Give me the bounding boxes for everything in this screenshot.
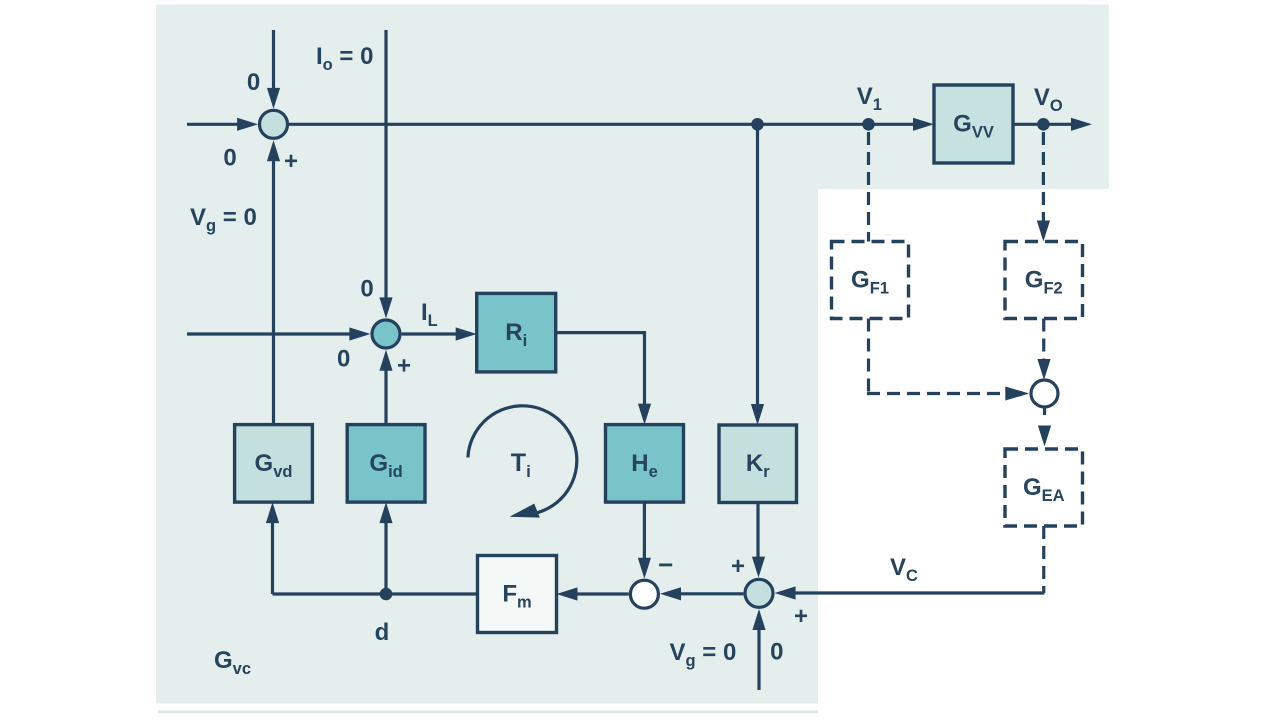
wire: S3 output arrow into Fm — [557, 587, 629, 600]
difference node S3 — [630, 580, 658, 608]
block GF1 dashed — [832, 242, 909, 319]
wire: left input arrow into summing node S1 — [187, 118, 258, 131]
wire: arrowhead into Gvv — [913, 118, 934, 131]
wire: d line up into Gvd — [266, 502, 279, 594]
svg-text:0: 0 — [770, 639, 783, 666]
node d junction — [380, 588, 393, 601]
svg-text:+: + — [794, 603, 808, 630]
wire: He output down into difference node S3 — [638, 502, 651, 579]
svg-text:−: − — [658, 549, 673, 579]
wire: bottom Vg input up into S4 — [752, 609, 765, 690]
wire: Gid output up into S2 — [379, 350, 392, 425]
wire: zero input down into summing node S2 — [379, 30, 392, 318]
svg-text:Vg = 0: Vg = 0 — [670, 639, 737, 670]
wire: d line up into Gid — [379, 502, 392, 594]
background panel — [156, 5, 1109, 704]
svg-text:0: 0 — [223, 144, 236, 171]
wire: Gvd output up into S1 — [267, 140, 280, 424]
wire: left input arrow into summing node S2 — [187, 327, 370, 340]
node junction to Kr branch — [751, 118, 764, 131]
block Gvv — [934, 85, 1013, 163]
wire: branch from node down into Kr — [751, 124, 764, 425]
summing node S4 — [745, 579, 773, 607]
wire: d line from Fm output to Gvd branch — [273, 592, 478, 595]
wire: Gvv output arrow Vo — [1013, 118, 1092, 131]
dashed wire: Vo down into GF2 — [1037, 132, 1050, 242]
dashed wire: V1 down to GF1 — [867, 132, 870, 242]
wire: Vc line from GEA chain into S4 — [775, 586, 1045, 599]
loop direction arc Ti — [468, 406, 577, 518]
block Gid — [347, 425, 425, 503]
svg-text:+: + — [284, 148, 298, 175]
wire: S4 output arrow into S3 — [660, 587, 743, 600]
block Fm — [478, 556, 557, 633]
dashed wire: GF1 down and right into chain node S5 — [867, 319, 1029, 401]
wire: main line from S1 to Gvv — [289, 123, 914, 126]
svg-text:Vg = 0: Vg = 0 — [190, 204, 257, 235]
svg-text:+: + — [731, 553, 745, 580]
summing node S2 — [372, 320, 400, 348]
dashed wire: S5 down into GEA — [1038, 409, 1051, 447]
block GF2 dashed — [1005, 242, 1083, 319]
node V1 — [862, 118, 875, 131]
svg-text:+: + — [397, 353, 411, 380]
wire: Io input down into summing node S1 — [267, 30, 280, 109]
block Kr — [719, 425, 797, 503]
svg-text:0: 0 — [360, 276, 373, 303]
block Ri — [477, 293, 556, 372]
panel bottom shadow — [158, 711, 818, 714]
block He — [606, 425, 684, 503]
block Gvd — [235, 425, 313, 503]
block GEA dashed — [1005, 449, 1083, 526]
wire: Ri output over and down into He — [556, 333, 651, 425]
svg-text:0: 0 — [247, 69, 260, 96]
svg-text:0: 0 — [337, 346, 350, 373]
wire: IL arrow from S2 into Ri — [402, 327, 477, 340]
dashed wire: GEA down to Vc corner — [1042, 526, 1045, 593]
dashed wire: GF2 down into chain node S5 — [1037, 319, 1050, 381]
node Vo — [1037, 118, 1050, 131]
summing node S1 — [260, 110, 288, 138]
wire: Kr output down into summing node S4 — [752, 503, 765, 578]
svg-text:d: d — [375, 619, 390, 646]
svg-text:VC: VC — [890, 554, 918, 585]
chain summing node S5 — [1031, 380, 1058, 407]
